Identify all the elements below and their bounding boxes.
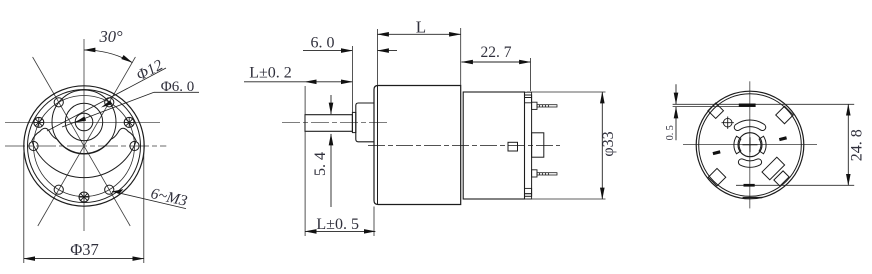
bottom curved slot [738, 159, 761, 167]
leader line 6-M3 [112, 191, 186, 208]
30 degree dimension arc [84, 50, 132, 63]
terminal block bottom [532, 170, 537, 177]
center bearing boss circle [738, 133, 762, 157]
dimension L+-0.2 tail under text [244, 81, 305, 83]
rotated square top-right [776, 106, 794, 124]
rotated square bottom-left [708, 168, 726, 186]
bottom tab thick bar [744, 184, 755, 187]
bushing boss [356, 103, 374, 142]
M3 hole 3 (left) [29, 141, 38, 150]
extension line 22.7 right [530, 58, 532, 91]
gearbox body [374, 86, 461, 205]
circle Φ12 [65, 103, 102, 140]
motor end cap [525, 95, 532, 196]
extension line Φ37 left [23, 152, 25, 263]
motor silhouette kidney contour [32, 128, 136, 177]
polarity mark circle-cross [722, 117, 734, 129]
svg-text:6. 0: 6. 0 [311, 35, 335, 52]
dimension 6.0 tail left with arrow [303, 50, 352, 52]
horizontal centerline through gearbox center [5, 145, 166, 147]
M3 hole 4 (right) [130, 141, 139, 150]
radial centerline -30deg (upper-left to lower-right) [33, 57, 131, 226]
motor can [463, 92, 524, 199]
crimp tab bottom a [525, 188, 532, 193]
crimp tab bottom b [525, 194, 532, 199]
dimension line 22.7 [462, 61, 531, 63]
center cross mark [743, 137, 758, 152]
extension line L right / 22.7 left [460, 28, 462, 85]
terminal mark left [713, 150, 721, 155]
hatched screw hole right [124, 117, 134, 127]
left ear arc [734, 136, 741, 154]
right ear arc [759, 136, 766, 154]
dimension line L [378, 33, 461, 35]
terminal pin bottom [537, 173, 557, 175]
svg-text:L: L [416, 18, 426, 37]
can window [508, 142, 518, 151]
0.5 lower reference line [673, 106, 756, 108]
extension line L0.5 right (gearbox face) [373, 207, 375, 237]
24.8 bottom extension line [736, 184, 854, 186]
shaft boss circle Φ20 [52, 90, 116, 154]
shaft circle Φ6.0 [75, 113, 93, 131]
svg-text:L±0. 2: L±0. 2 [249, 65, 292, 82]
dimension line L+-0.2 [305, 81, 352, 83]
dimension 5.4 upper arrow [330, 95, 332, 114]
M3 hole 1 (top-left) [54, 98, 63, 107]
terminal mark right [779, 136, 787, 141]
extension line Φ33 bottom [527, 198, 606, 200]
output shaft [305, 115, 352, 132]
dimension line L+-0.5 [305, 230, 375, 232]
top curved slot [734, 120, 765, 131]
dimension 5.4 lower arrow [330, 134, 332, 207]
horizontal centerline through shaft [5, 121, 160, 123]
0.5 dimension upper arrow [675, 84, 677, 104]
end cap center boss [532, 133, 544, 157]
extension line Φ37 right [143, 140, 145, 263]
extension line L0.2 and L0.5 left (shaft tip) [304, 86, 306, 236]
extension line 6.0 left / L0.2 right [351, 46, 353, 112]
rotated rect bottom-right small [774, 171, 789, 186]
leader line Φ6.0 [62, 92, 154, 127]
arrowhead of Φ6.0 leader [75, 116, 87, 122]
hatched screw hole left [34, 117, 44, 127]
0.5 dimension lower arrow [675, 107, 677, 140]
bottom flat chord [743, 197, 763, 199]
underline of Φ6.0 [154, 91, 199, 93]
dimension line Φ33 [601, 92, 603, 199]
hatched screw hole bottom [79, 192, 89, 202]
vertical centerline [749, 81, 751, 208]
svg-text:5. 4: 5. 4 [312, 152, 329, 176]
arrowhead of 6-M3 leader [113, 188, 125, 195]
retaining washer [352, 112, 355, 132]
extension line Φ33 top [527, 91, 606, 93]
gearbox face seam [377, 86, 379, 205]
bolt circle [34, 96, 135, 197]
M3 hole 2 (top-right) [105, 98, 114, 107]
radial centerline +30deg (upper-right to lower-left) [38, 57, 136, 226]
dimension line Φ37 [24, 258, 144, 260]
0.5 upper reference line (24.8 top extension) [673, 103, 855, 105]
svg-text:Φ37: Φ37 [70, 240, 99, 259]
horizontal centerline [683, 144, 817, 146]
crimp tab top a [525, 92, 532, 97]
vertical centerline [83, 39, 85, 231]
shaft centerline [282, 121, 390, 123]
svg-text:24. 8: 24. 8 [849, 129, 866, 161]
svg-text:30°: 30° [98, 27, 123, 46]
motor can inner circle [699, 94, 802, 197]
leader line Φ12 [47, 68, 166, 131]
svg-text:22. 7: 22. 7 [481, 44, 512, 61]
gearbox rim inner circle [28, 90, 141, 203]
M3 hole 5 (bottom-left) [54, 185, 63, 194]
terminal pin top [537, 105, 557, 107]
rotated rect bottom-right large [762, 157, 785, 180]
svg-text:0. 5: 0. 5 [665, 125, 676, 140]
svg-text:L±0. 5: L±0. 5 [316, 216, 359, 233]
motor can outer circle [696, 91, 804, 199]
svg-text:6~M3: 6~M3 [149, 185, 189, 210]
extension line L left / face [377, 29, 379, 85]
dimension line 24.8 [847, 104, 849, 185]
svg-text:φ33: φ33 [600, 131, 617, 156]
rotated square top-left [708, 103, 724, 119]
M3 hole 6 (bottom-right) [105, 185, 114, 194]
terminal block top [532, 102, 537, 109]
top tab thick bar [739, 104, 756, 107]
gearbox rim outer circle Φ37 [24, 86, 144, 206]
dimension 6.0 tail right with arrow [378, 50, 398, 52]
arrowhead of Φ12 leader [101, 100, 112, 107]
main centerline [368, 144, 560, 146]
crimp tab top b [525, 98, 532, 103]
